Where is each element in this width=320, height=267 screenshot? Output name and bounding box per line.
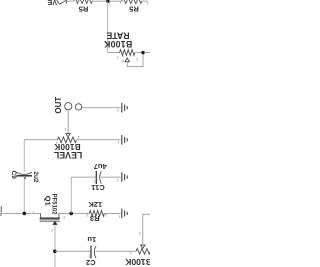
resistor R5 (left) (74, 0, 93, 4)
potentiometer RATE B100K (103, 30, 150, 66)
connector OUT jack (54, 97, 127, 134)
svg-text:2: 2 (51, 228, 53, 232)
junction dot (69, 212, 73, 216)
svg-text:2u2: 2u2 (32, 171, 39, 182)
svg-text:C11: C11 (90, 183, 104, 192)
wire (71, 176, 96, 178)
svg-text:R5: R5 (128, 5, 138, 14)
wire (gate) (54, 225, 56, 267)
capacitor C11 4u7 (90, 162, 106, 192)
svg-text:1: 1 (146, 1, 148, 5)
wire (135, 52, 150, 54)
gate bar (40, 220, 60, 222)
source lead (58, 213, 60, 218)
wire (source rail) (0, 212, 41, 214)
svg-text:1: 1 (32, 210, 34, 214)
svg-text:1: 1 (118, 215, 120, 219)
transistor Q1 PF5102 (32, 194, 65, 232)
wire (77, 139, 121, 141)
svg-text:2: 2 (120, 0, 122, 4)
wire (93, 0, 123, 2)
svg-text:1: 1 (117, 108, 119, 112)
jack pin circle (65, 103, 72, 110)
svg-text:1u: 1u (87, 235, 96, 244)
svg-text:RATE: RATE (106, 30, 129, 40)
wire (143, 214, 150, 245)
svg-text:R3: R3 (90, 214, 100, 223)
svg-text:1: 1 (88, 253, 90, 257)
svg-text:1: 1 (55, 141, 57, 145)
svg-text:4u7: 4u7 (94, 162, 107, 171)
wire (66, 0, 74, 2)
wire (23, 140, 25, 173)
svg-text:1: 1 (86, 213, 88, 217)
ground (122, 135, 127, 145)
channel bar (40, 217, 60, 219)
svg-text:1: 1 (93, 180, 95, 184)
svg-text:1: 1 (117, 140, 119, 144)
potentiometer LEVEL B100K (24, 127, 127, 160)
potentiometer B100K (bottom right) (124, 214, 152, 267)
node VE (supply label) (47, 0, 57, 5)
wire (108, 52, 120, 54)
drain lead (40, 213, 42, 218)
resistor R5 (right) (122, 0, 142, 4)
svg-text:1: 1 (116, 178, 118, 182)
ground (122, 172, 127, 182)
svg-text:2: 2 (122, 59, 124, 63)
wiper arrow (125, 58, 129, 62)
diode D1 (57, 0, 67, 4)
ground (122, 209, 127, 219)
svg-text:C2: C2 (86, 258, 96, 267)
wire (82, 107, 121, 109)
junction dot (23, 212, 27, 216)
wire (96, 250, 136, 252)
ground (122, 103, 127, 113)
wire (107, 1, 109, 53)
wire (55, 250, 91, 252)
svg-text:B100K: B100K (103, 39, 132, 49)
svg-text:PF5102: PF5102 (51, 194, 57, 216)
svg-text:C9: C9 (10, 171, 17, 180)
svg-text:2: 2 (139, 231, 141, 235)
wire (70, 177, 72, 213)
svg-text:2: 2 (90, 0, 92, 4)
svg-text:3: 3 (136, 57, 138, 61)
junction dot (53, 250, 57, 254)
capacitor C9 2u2 (10, 171, 39, 183)
wire wiper loop (127, 53, 143, 67)
wire (142, 0, 148, 2)
junction dot (141, 51, 144, 54)
svg-text:1: 1 (130, 251, 132, 255)
capacitor C1 (cut at left edge) (0, 206, 2, 215)
svg-text:12K: 12K (88, 200, 102, 209)
svg-text:3: 3 (78, 135, 80, 139)
svg-text:1: 1 (116, 55, 118, 59)
wire (24, 139, 57, 141)
capacitor C2 1u (86, 235, 96, 267)
wire (101, 176, 121, 178)
wiper arrow (141, 245, 145, 248)
wire (23, 176, 25, 214)
gate arrow (53, 221, 57, 224)
jack pin circle (75, 104, 81, 110)
svg-text:3: 3 (63, 215, 65, 219)
wire (59, 212, 89, 214)
svg-text:2: 2 (64, 127, 66, 131)
svg-text:B100K: B100K (124, 257, 150, 267)
wire (67, 110, 69, 134)
svg-text:LEVEL: LEVEL (53, 150, 82, 160)
junction dot (106, 0, 109, 3)
svg-text:OUT: OUT (54, 97, 63, 114)
wire (104, 212, 120, 214)
wiper arrow (66, 134, 70, 137)
svg-text:R5: R5 (78, 5, 88, 14)
svg-text:VE: VE (47, 0, 57, 5)
resistor R3 12K (86, 200, 107, 223)
